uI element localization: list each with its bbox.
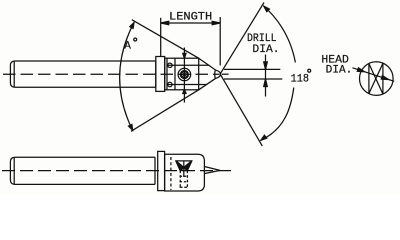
set screw (bottom view) hidden shank <box>179 171 181 188</box>
point angle line upper right <box>220 3 264 74</box>
angle A line <box>132 20 199 59</box>
drill nose <box>216 70 221 78</box>
head block (top view) <box>165 58 199 90</box>
angle A lower line <box>131 90 199 132</box>
end view circle <box>360 62 394 96</box>
centerline (top view) <box>3 73 220 75</box>
centerline (bottom view) <box>2 170 235 172</box>
angle A arc <box>120 23 134 131</box>
body silhouette line lower <box>167 84 206 86</box>
countersink cone upper edge <box>199 58 216 70</box>
svg-text:LENGTH: LENGTH <box>169 12 212 24</box>
mounting hole lower <box>168 82 172 86</box>
flute chord right <box>382 63 384 94</box>
drill dia dimension line <box>265 55 267 97</box>
LENGTH extension line left <box>160 18 162 57</box>
shank (bottom view) <box>10 157 155 184</box>
inner vertical line <box>174 58 176 90</box>
collar (top view) <box>156 57 165 92</box>
drill tip (bottom view) upper <box>204 167 220 171</box>
LENGTH extension line right <box>219 17 221 66</box>
point angle line lower right <box>220 74 262 146</box>
set screw head (top view) <box>178 68 191 81</box>
plate edge line <box>166 58 168 90</box>
svg-text:A: A <box>124 40 131 52</box>
svg-text:118: 118 <box>291 73 309 85</box>
shank (top view) <box>10 61 155 87</box>
chisel edge diagonal 2 <box>369 63 383 93</box>
set screw (bottom view) head <box>176 161 192 171</box>
drill tip (bottom view) lower <box>204 170 220 173</box>
chisel edge diagonal 1 <box>369 64 383 94</box>
countersink cone lower edge <box>199 78 216 90</box>
drill dia line upper <box>224 68 280 70</box>
svg-text:DIA.: DIA. <box>252 44 279 56</box>
head dia leader line <box>353 68 395 82</box>
head block (bottom view) <box>165 154 205 191</box>
drill dia line lower <box>224 78 282 80</box>
screw centerline vertical <box>183 48 185 103</box>
collar (bottom view) <box>158 151 165 190</box>
body silhouette line upper <box>167 64 209 66</box>
svg-text:DIA.: DIA. <box>326 65 353 77</box>
118 degree arc lower <box>261 88 294 141</box>
118 degree arc upper <box>264 6 296 62</box>
LENGTH dimension line <box>161 22 221 24</box>
mounting hole upper <box>168 63 172 67</box>
hidden hole line (bottom view) <box>170 157 172 190</box>
flute chord left <box>368 64 370 94</box>
